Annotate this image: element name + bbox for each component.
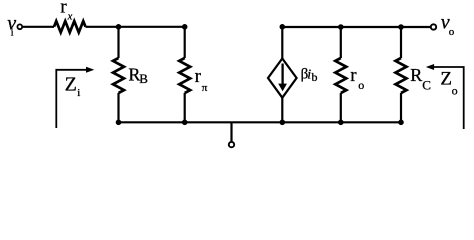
wire RB bottom stub (117, 93, 119, 122)
node vo terminal (431, 24, 436, 29)
wire source top stub (281, 27, 283, 59)
node r-pi top junction dot (182, 24, 188, 30)
wire RC top stub (400, 27, 402, 58)
svg-text:b: b (312, 70, 318, 84)
wire r-pi top stub (184, 27, 186, 58)
Zi impedance arrow (56, 70, 87, 128)
resistor r-pi (179, 58, 190, 93)
node ro top junction dot (338, 24, 344, 30)
wire top right segment (282, 26, 430, 28)
svg-text:r: r (195, 66, 202, 87)
resistor RC (396, 58, 407, 93)
svg-text:Z: Z (440, 69, 452, 90)
wire input to rx (23, 26, 54, 28)
resistor rx (54, 21, 86, 32)
svg-text:o: o (452, 84, 458, 98)
svg-text:r: r (350, 65, 357, 86)
wire rx to r-pi node (86, 26, 185, 28)
svg-text:r: r (60, 0, 67, 18)
svg-text:o: o (358, 78, 364, 92)
ground terminal (229, 142, 234, 147)
node bottom RB dot (116, 120, 122, 126)
wire RC bottom stub (400, 93, 402, 122)
Zo impedance arrow (433, 67, 464, 129)
ground stub wire (230, 122, 232, 141)
wire r-pi bottom stub (184, 93, 186, 122)
svg-text:π: π (202, 82, 208, 94)
wire ro top stub (340, 27, 342, 58)
svg-text:o: o (449, 26, 455, 38)
current source arrow (281, 64, 283, 86)
node RC top junction dot (398, 24, 404, 30)
resistor ro (335, 58, 346, 93)
node bottom ro dot (338, 120, 344, 126)
wire source bottom stub (281, 98, 283, 123)
node bottom r-pi dot (182, 120, 188, 126)
node bottom RC dot (398, 120, 404, 126)
node B junction dot (116, 24, 122, 30)
current source top dot (280, 24, 286, 30)
wire RB top stub (117, 27, 119, 58)
resistor RB (113, 58, 124, 93)
svg-text:R: R (410, 65, 422, 85)
wire ro bottom stub (340, 93, 342, 122)
current source diamond beta-ib (268, 59, 297, 98)
svg-text:C: C (422, 78, 431, 93)
node bottom source dot (280, 120, 286, 126)
svg-text:i: i (77, 87, 80, 99)
svg-text:B: B (139, 71, 148, 86)
wire bottom rail (119, 121, 402, 123)
node vi terminal (17, 24, 22, 29)
svg-text:x: x (67, 12, 73, 23)
svg-text:Z: Z (65, 74, 77, 96)
svg-text:i: i (11, 28, 14, 39)
